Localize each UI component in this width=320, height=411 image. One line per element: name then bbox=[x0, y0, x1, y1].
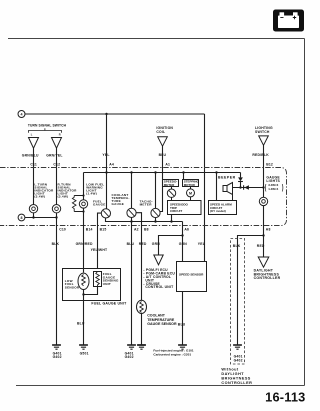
wire A4 ignition power into cluster bbox=[106, 114, 108, 209]
wire coolant sensor to ground bbox=[141, 314, 143, 345]
node junction rail/A4 bbox=[105, 113, 107, 115]
coolant temperature gauge sensor bbox=[137, 300, 147, 313]
node A6 branch bbox=[181, 234, 183, 236]
wire branch to ground (without controller) bbox=[238, 236, 264, 345]
svg-text:C12: C12 bbox=[53, 162, 60, 166]
svg-text:RED: RED bbox=[139, 242, 147, 246]
svg-text:B15: B15 bbox=[100, 227, 107, 231]
wire beeper to lighting circuit bbox=[233, 187, 264, 189]
svg-text:G402: G402 bbox=[234, 358, 243, 362]
svg-text:RED/BLK: RED/BLK bbox=[252, 153, 269, 157]
svg-text:BEEPER: BEEPER bbox=[218, 176, 236, 180]
svg-text:Without: Without bbox=[221, 368, 239, 372]
svg-text:METER: METER bbox=[140, 203, 153, 207]
svg-text:YEL: YEL bbox=[198, 242, 205, 246]
fuel gauge sending unit (resistor in box) bbox=[94, 272, 102, 287]
node return/tach bbox=[154, 220, 156, 222]
svg-text:C11: C11 bbox=[30, 162, 37, 166]
beeper speaker symbol bbox=[223, 183, 233, 195]
connector triangle daylight brightness controller bbox=[258, 257, 269, 267]
gauge assembly boundary (dash-dot box) bbox=[0, 168, 287, 226]
wire internal power bus bbox=[84, 172, 241, 174]
low fuel sensor bbox=[78, 273, 89, 289]
speed sensor box bbox=[177, 262, 207, 292]
svg-text:DAYLIGHT: DAYLIGHT bbox=[221, 372, 244, 376]
svg-text:B12: B12 bbox=[266, 162, 273, 166]
speedometer label box bbox=[163, 180, 179, 187]
speed/odo trip circuit box bbox=[168, 201, 202, 215]
svg-text:COIL: COIL bbox=[156, 130, 165, 134]
svg-text:FUEL GAUGE UNIT: FUEL GAUGE UNIT bbox=[91, 302, 127, 306]
speed alarm circuit box bbox=[209, 201, 237, 215]
stepping motor M bbox=[187, 187, 195, 201]
node return/speed-odo bbox=[170, 220, 172, 222]
node fuel unit common bbox=[82, 293, 84, 295]
svg-text:CONTROLLER: CONTROLLER bbox=[221, 381, 252, 385]
connector triangle to control units bbox=[154, 255, 163, 265]
svg-text:BLU: BLU bbox=[159, 153, 167, 157]
svg-text:(3.4W): (3.4W) bbox=[58, 195, 69, 199]
wire BLK C10 to ground bbox=[56, 218, 58, 345]
svg-text:BLU: BLU bbox=[127, 242, 135, 246]
svg-text:GRN/RED: GRN/RED bbox=[76, 242, 93, 246]
wire B8 to coolant sensor bbox=[136, 213, 141, 301]
fuel gauge unit box bbox=[63, 269, 121, 301]
wire GRN branch to ECU bbox=[159, 236, 183, 256]
svg-text:GRN: GRN bbox=[179, 242, 187, 246]
wire speaker to speed alarm circuit bbox=[232, 195, 234, 201]
frame top border / power rail bbox=[8, 38, 305, 40]
svg-text:SPEED SENSOR: SPEED SENSOR bbox=[179, 273, 204, 277]
wire GRN/YEL C12 bbox=[56, 148, 58, 204]
lamp L turn signal indicator bbox=[29, 205, 37, 213]
stepping motor label box bbox=[183, 180, 200, 187]
svg-text:BLK: BLK bbox=[52, 242, 60, 246]
node lighting wire/diode line bbox=[262, 186, 264, 188]
connector triangle ignition coil bbox=[158, 137, 168, 146]
frame bottom border bbox=[16, 385, 305, 387]
svg-text:(3.4W): (3.4W) bbox=[34, 195, 45, 199]
svg-text:B14: B14 bbox=[86, 227, 93, 231]
lamp low fuel warning bbox=[79, 200, 87, 208]
svg-text:B8: B8 bbox=[144, 227, 149, 231]
wire bus to low fuel lamp bbox=[83, 173, 85, 200]
svg-text:BLU: BLU bbox=[178, 322, 186, 326]
diode D1 (vertical) bbox=[238, 173, 243, 188]
battery symbol (power source icon, top right) bbox=[273, 10, 304, 32]
fuse 4 (circled number) bbox=[18, 111, 25, 118]
frame right border bbox=[304, 39, 306, 386]
svg-text:1.4W×4: 1.4W×4 bbox=[268, 187, 278, 191]
node bus/tachometer bbox=[154, 171, 156, 173]
lamp R turn signal indicator bbox=[52, 205, 60, 213]
connector triangle lighting switch bbox=[259, 136, 269, 145]
svg-text:RED: RED bbox=[257, 244, 265, 248]
svg-text:YEL/WHT: YEL/WHT bbox=[91, 248, 108, 252]
svg-text:MOTOR: MOTOR bbox=[184, 183, 196, 187]
svg-text:METER: METER bbox=[164, 183, 175, 187]
lamp gauge lights bbox=[259, 197, 267, 205]
wire YEL to speed sensor (passes through cluster) bbox=[204, 114, 206, 262]
wire gauge return line bbox=[106, 218, 183, 222]
svg-text:GAUGE: GAUGE bbox=[93, 203, 106, 207]
wire sensor joins in fuel unit bbox=[84, 287, 98, 295]
svg-text:TURN SIGNAL SWITCH: TURN SIGNAL SWITCH bbox=[28, 124, 67, 128]
svg-text:CONTROLLER: CONTROLLER bbox=[254, 276, 281, 280]
svg-text:GRN/YEL: GRN/YEL bbox=[46, 153, 62, 157]
wire RED A8 to daylight brightness controller bbox=[263, 206, 265, 257]
node diode junction bbox=[239, 186, 241, 188]
svg-text:SWITCH: SWITCH bbox=[255, 130, 270, 134]
tachometer bbox=[151, 173, 160, 218]
wire GRN/RED B14 to low fuel sensor bbox=[83, 208, 85, 272]
svg-text:GRN/BLU: GRN/BLU bbox=[22, 153, 39, 157]
wire speed/odo circuit to return line bbox=[171, 215, 173, 222]
svg-text:8: 8 bbox=[21, 216, 23, 220]
ground speed sensor bbox=[178, 344, 187, 346]
node bus/coolant gauge bbox=[130, 171, 132, 173]
node resistor top bbox=[82, 194, 84, 196]
svg-text:GAUGE: GAUGE bbox=[112, 202, 125, 206]
wire ignition feed rail from fuse 4 bbox=[25, 113, 205, 115]
svg-text:GRN: GRN bbox=[152, 242, 160, 246]
svg-text:16-113: 16-113 bbox=[265, 390, 305, 405]
node A8 branch bbox=[262, 234, 264, 236]
wire RED/BLK B12 to gauge lights bbox=[263, 145, 265, 197]
svg-text:G402: G402 bbox=[53, 355, 62, 359]
svg-text:A8: A8 bbox=[266, 227, 271, 231]
connector triangle L turn bbox=[29, 138, 39, 149]
svg-text:GAUGE SENSOR: GAUGE SENSOR bbox=[147, 322, 177, 326]
svg-text:BRIGHTNESS: BRIGHTNESS bbox=[221, 376, 250, 380]
svg-text:SENSOR: SENSOR bbox=[65, 286, 80, 290]
svg-text:): ) bbox=[282, 184, 284, 193]
ground G401/G402 (gauge ground) bbox=[125, 345, 136, 359]
svg-text:L: L bbox=[31, 133, 33, 137]
connector triangle R turn bbox=[52, 138, 62, 149]
node L lamp/common bbox=[32, 216, 34, 218]
svg-text:BLU: BLU bbox=[77, 322, 85, 326]
node R lamp/common bbox=[55, 216, 57, 218]
ground coolant sensor bbox=[137, 344, 146, 346]
wire turn lamp common bbox=[25, 213, 57, 218]
svg-text:UNIT: UNIT bbox=[103, 282, 111, 286]
svg-text:G501: G501 bbox=[80, 351, 89, 355]
wire BLU tach signal A1 bbox=[160, 146, 163, 211]
wire GRN/BLU C11 bbox=[33, 148, 35, 204]
svg-text:C10: C10 bbox=[59, 227, 66, 231]
node bus/stepping motor bbox=[182, 171, 184, 173]
speedometer dial bbox=[167, 187, 175, 201]
svg-text:A6: A6 bbox=[184, 227, 189, 231]
svg-text:(1.4W): (1.4W) bbox=[86, 192, 97, 196]
svg-text:4: 4 bbox=[21, 113, 23, 117]
svg-text:A2: A2 bbox=[134, 227, 139, 231]
wire BLU A2 to ground bbox=[131, 218, 133, 345]
wire BLU speed sensor to ground bbox=[182, 292, 184, 345]
node bus/A4 bbox=[105, 171, 107, 173]
node return/coolant bbox=[130, 220, 132, 222]
fuel gauge bbox=[101, 209, 110, 218]
wire bus to speed alarm circuit bbox=[216, 173, 218, 201]
ground G401/G402 (without controller) bbox=[233, 345, 243, 362]
wire BLU fuel unit to ground bbox=[83, 295, 85, 345]
wire bus to stepping motor bbox=[183, 173, 185, 180]
turn signal switch bracket bbox=[29, 128, 62, 133]
ground G501 (fuel gauge unit) bbox=[79, 345, 89, 355]
node bus/beeper bbox=[215, 171, 217, 173]
svg-text:A1: A1 bbox=[165, 162, 170, 166]
node resistor bottom bbox=[82, 210, 84, 212]
resistor (parallel with low fuel lamp) bbox=[72, 196, 83, 212]
fuse 8 (circled number) bbox=[18, 214, 25, 221]
ground G401/G402 (turn signal) bbox=[52, 345, 62, 359]
svg-text:M: M bbox=[189, 191, 192, 195]
coolant temperature gauge bbox=[127, 173, 136, 218]
dashed box (without daylight brightness controller) bbox=[231, 239, 245, 365]
wire GRN A6 to speed sensor bbox=[182, 222, 184, 262]
svg-text:(: ( bbox=[265, 184, 267, 193]
svg-text:Carbureted engine : G201: Carbureted engine : G201 bbox=[153, 352, 191, 356]
svg-text:(KY model): (KY model) bbox=[210, 209, 226, 213]
wire tach to return line bbox=[155, 218, 157, 222]
svg-text:BLK: BLK bbox=[233, 244, 241, 248]
svg-text:R: R bbox=[59, 133, 61, 137]
svg-text:CONTROL UNIT: CONTROL UNIT bbox=[145, 285, 174, 289]
diode D2 (horizontal) bbox=[244, 185, 249, 189]
wire YEL/WHT B15 to sending unit bbox=[98, 213, 102, 269]
svg-text:A4: A4 bbox=[109, 162, 114, 166]
svg-text:CIRCUIT: CIRCUIT bbox=[170, 209, 182, 213]
svg-text:G402: G402 bbox=[125, 355, 134, 359]
